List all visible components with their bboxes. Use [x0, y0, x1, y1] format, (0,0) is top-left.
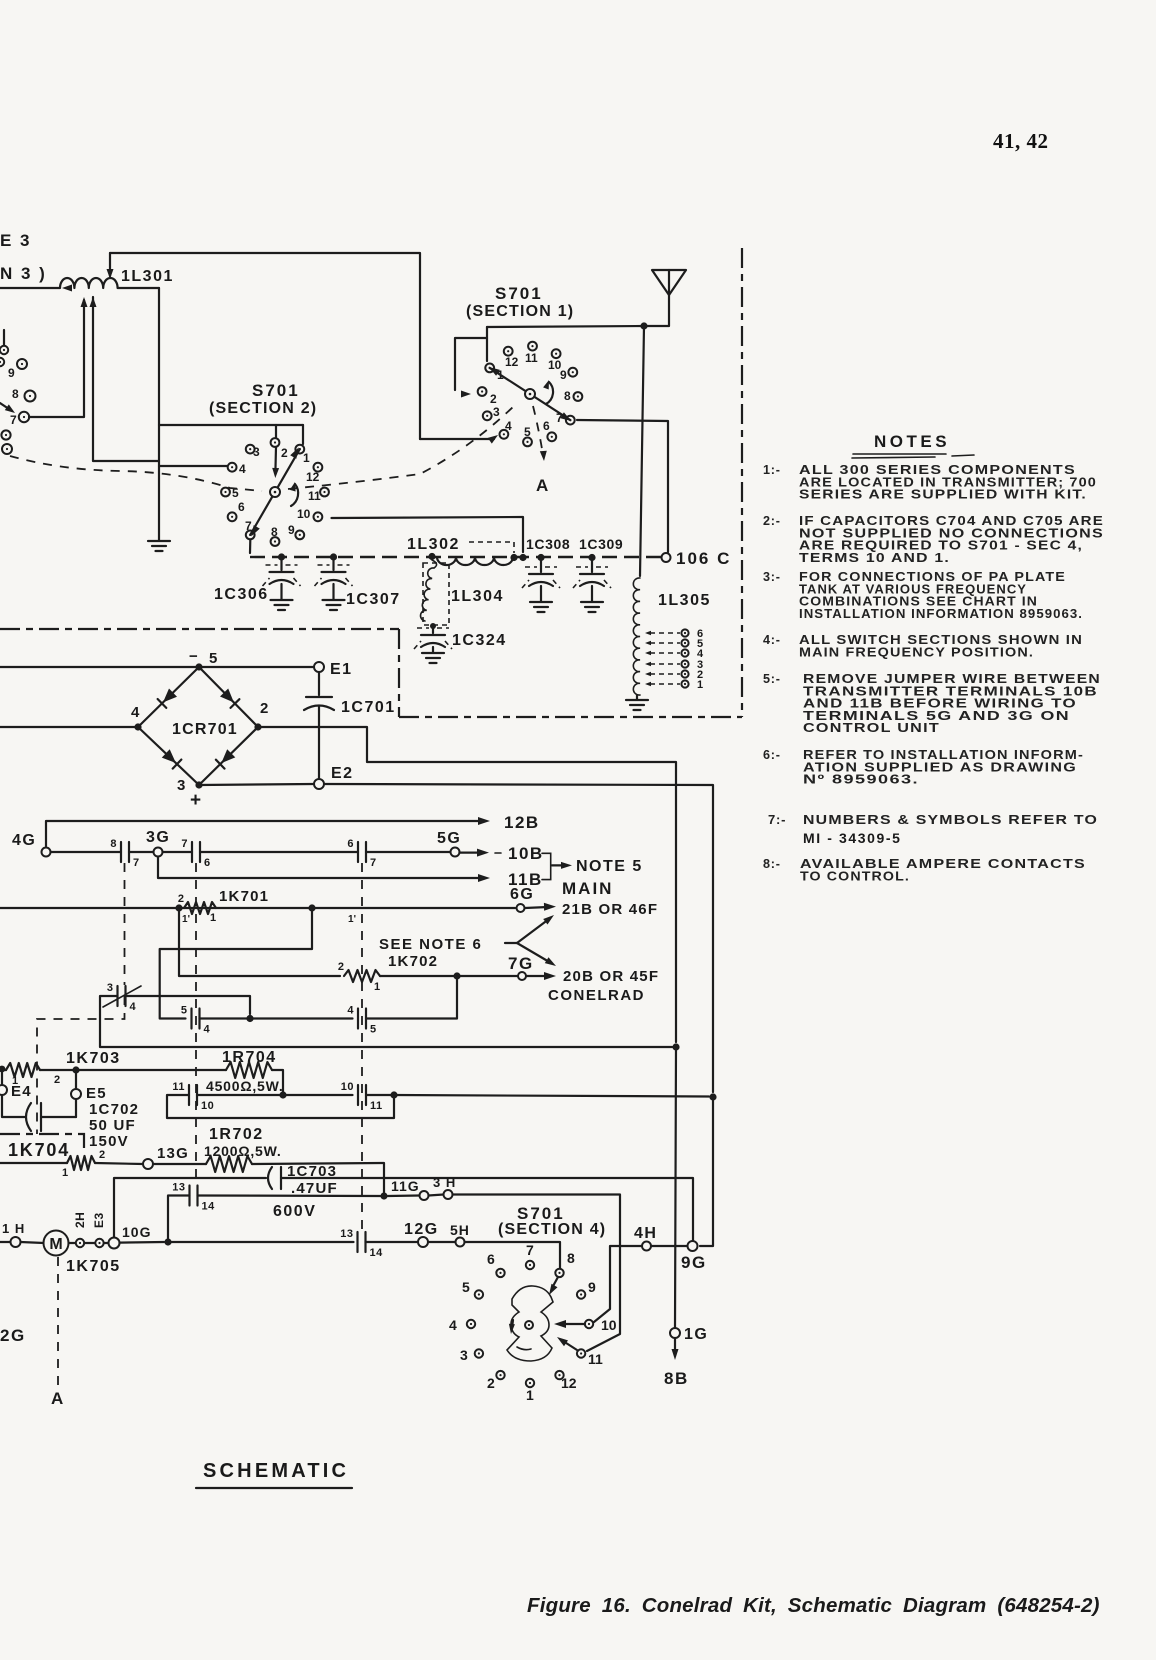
wire contact 11-10 to junction [197, 1094, 283, 1096]
svg-text:11: 11 [172, 1081, 185, 1093]
wire bridge left to page edge [0, 726, 138, 728]
svg-text:2: 2 [54, 1074, 60, 1086]
svg-text:7: 7 [181, 838, 188, 850]
svg-text:2: 2 [99, 1149, 105, 1161]
svg-text:2H: 2H [73, 1212, 87, 1228]
wire junction to contact 13-14 lower [168, 1241, 354, 1243]
svg-text:2: 2 [281, 446, 288, 460]
svg-text:4: 4 [347, 1005, 354, 1017]
svg-text:E4: E4 [11, 1083, 32, 1100]
mech dash from motor M [57, 1257, 59, 1385]
svg-text:150V: 150V [89, 1133, 129, 1150]
svg-text:3 H: 3 H [433, 1175, 456, 1190]
terminal 7G [518, 972, 526, 980]
mechanical gang dash from S701-3 to S701-2 [10, 456, 262, 491]
wire contact to 3G [129, 851, 153, 853]
relay coil 1K704 [67, 1156, 95, 1170]
wire S701-2 contact 7 to bus [249, 540, 252, 553]
svg-text:MI - 34309-5: MI - 34309-5 [803, 830, 902, 846]
wire contact 13-14 left down to 10G row [168, 1196, 190, 1239]
svg-text:7: 7 [10, 413, 17, 427]
svg-text:9: 9 [8, 366, 15, 380]
junction 10G row [164, 1238, 171, 1245]
svg-text:1K701: 1K701 [219, 888, 269, 905]
svg-text:(SECTION 4): (SECTION 4) [498, 1221, 606, 1238]
svg-text:Nº 8959063.: Nº 8959063. [803, 773, 919, 787]
svg-text:3: 3 [107, 982, 114, 994]
svg-text:10: 10 [548, 358, 562, 372]
junction 1L304-1C324 [430, 623, 436, 629]
svg-text:5: 5 [462, 1279, 470, 1295]
svg-text:1: 1 [303, 451, 310, 465]
motor 1K705 [21, 1242, 45, 1243]
inductor 1L301 [0, 278, 159, 288]
svg-text:6: 6 [238, 500, 245, 514]
wire contact 3-4 right to junction riser [126, 996, 251, 1014]
dash box 1K704 [0, 1134, 84, 1149]
node 5 (minus) [195, 663, 202, 670]
svg-text:3: 3 [177, 777, 185, 794]
wire 1K701-left down to 1K702 [179, 908, 340, 976]
wire 1K702 to 7G [380, 975, 517, 977]
svg-text:.47UF: .47UF [291, 1180, 338, 1197]
mech dash link to 1K704 [37, 996, 125, 1134]
rotation arc S701 section 2 [291, 484, 298, 506]
rotation arrow S701 section 4 [512, 1320, 513, 1328]
svg-text:106 C: 106 C [676, 549, 731, 568]
wire top from 1L301 to S701-1 drop [110, 253, 420, 439]
svg-text:7: 7 [245, 519, 252, 533]
terminal 12G [418, 1237, 428, 1247]
svg-text:1C306: 1C306 [214, 586, 269, 603]
node 2 [254, 723, 261, 730]
capacitor 1C309 [591, 557, 593, 572]
relay contact 10-11 [357, 1085, 359, 1105]
junction antenna node [640, 322, 647, 329]
switch S701 section 2 contacts [271, 438, 280, 447]
svg-text:13: 13 [172, 1182, 185, 1194]
terminal 2H [69, 1242, 76, 1244]
wire contact 3-4 left down to 1048 line [100, 996, 672, 1047]
svg-text:4H: 4H [634, 1225, 657, 1242]
svg-text:13: 13 [340, 1228, 353, 1240]
svg-text:MAIN: MAIN [562, 879, 613, 898]
inductor 1L304 (variable, dashed box) [432, 560, 437, 568]
svg-text:1G: 1G [684, 1326, 708, 1343]
terminal 5G [451, 848, 460, 857]
svg-text:8:-: 8:- [763, 857, 781, 871]
svg-text:4:-: 4:- [763, 633, 781, 647]
wire 10G to junction [120, 1241, 165, 1244]
svg-text:10: 10 [341, 1081, 354, 1093]
bracket note 5 [542, 853, 551, 879]
svg-text:1: 1 [526, 1387, 534, 1403]
svg-text:6: 6 [487, 1251, 495, 1267]
svg-text:6:-: 6:- [763, 748, 781, 762]
wire contact 10-11 to junction 2 [366, 1094, 394, 1096]
wire 1R704 down to contact row [272, 1070, 283, 1095]
wire 5H to S701-4 contact 8 [465, 1242, 561, 1268]
wire contact 5-4 to junction [200, 1017, 251, 1019]
svg-text:CONTROL UNIT: CONTROL UNIT [803, 721, 940, 735]
svg-text:2: 2 [260, 700, 268, 717]
wire 12B branch [46, 821, 484, 846]
wire 3H to S701-4 contact 11 [453, 1195, 621, 1352]
junction 1C309 [588, 554, 595, 561]
wire 21B line [0, 907, 515, 909]
svg-text:1K705: 1K705 [66, 1258, 121, 1275]
relay contact 3-4 (with NC slash) [116, 986, 118, 1006]
svg-text:3: 3 [460, 1347, 468, 1363]
wire junction to contact 4-5 [250, 1017, 353, 1019]
wire right vertical to 1G [675, 1047, 676, 1327]
svg-text:3: 3 [253, 445, 260, 459]
wire bridge bottom to E2 [199, 784, 313, 785]
svg-text:NUMBERS & SYMBOLS REFER TO: NUMBERS & SYMBOLS REFER TO [803, 812, 1098, 827]
wire antenna node down to 1L305 [640, 326, 644, 576]
svg-text:7:-: 7:- [768, 812, 786, 827]
relay contact 13-14 upper [188, 1186, 190, 1206]
svg-text:1C307: 1C307 [346, 591, 401, 608]
wire 12G to 5H [428, 1241, 456, 1243]
relay contact 8-7 [120, 842, 122, 862]
terminal 11G [420, 1191, 429, 1200]
svg-text:8B: 8B [664, 1369, 689, 1388]
wire S701-4 contact 10 to 4H [594, 1246, 641, 1322]
mech dash link relay 1K701 contacts x=124.5 [124, 863, 126, 985]
svg-text:8: 8 [564, 389, 571, 403]
svg-text:4: 4 [449, 1317, 457, 1333]
wire 1R702 to 11G junction [252, 1163, 384, 1192]
terminal 1G [670, 1328, 680, 1338]
terminal E1 [314, 662, 324, 672]
junction 20B line [453, 972, 460, 979]
svg-text:1K702: 1K702 [388, 953, 438, 970]
arrow 20B [527, 975, 549, 977]
svg-text:9G: 9G [681, 1253, 707, 1272]
svg-text:1: 1 [697, 679, 703, 691]
wire E2 to right vertical (9G feed) [325, 784, 713, 1092]
svg-text:8: 8 [567, 1250, 575, 1266]
svg-text:E1: E1 [330, 661, 353, 678]
wire 3G to contact 7-6 [163, 851, 193, 853]
svg-text:1: 1 [62, 1167, 68, 1179]
relay contact 11-10 [188, 1085, 190, 1105]
relay coil 1K703 [0, 1069, 6, 1071]
terminal E3 [84, 1242, 95, 1244]
svg-text:1200Ω,5W.: 1200Ω,5W. [204, 1143, 282, 1159]
svg-text:7: 7 [133, 857, 140, 869]
svg-text:−: − [189, 648, 198, 665]
mech dash link x=362 [361, 863, 363, 1232]
svg-text:1L305: 1L305 [658, 592, 711, 609]
svg-text:1C324: 1C324 [452, 632, 507, 649]
pointer from contact 8 into rotor [552, 1277, 558, 1288]
svg-text:10: 10 [201, 1100, 214, 1112]
node 3 (plus) [195, 781, 202, 788]
wire S701-3 contact 7 to 1L301 taps [29, 300, 84, 417]
svg-text:11: 11 [588, 1351, 603, 1367]
svg-text:5: 5 [524, 425, 531, 439]
svg-text:14: 14 [202, 1201, 216, 1213]
svg-text:1R704: 1R704 [222, 1049, 277, 1066]
svg-text:1C702: 1C702 [89, 1101, 139, 1118]
wire junction to 11G [388, 1194, 420, 1197]
svg-text:14: 14 [370, 1247, 384, 1259]
svg-text:E3: E3 [92, 1212, 106, 1228]
relay coil 1K702 [344, 970, 380, 982]
svg-text:4: 4 [130, 1001, 137, 1013]
wire contact 4-5 up to 20B line [366, 976, 457, 1019]
svg-text:1R702: 1R702 [209, 1126, 264, 1143]
svg-text:8: 8 [271, 525, 278, 539]
junction bypass right [390, 1091, 397, 1098]
terminal 6G [517, 904, 525, 912]
svg-text:1CR701: 1CR701 [172, 721, 238, 738]
junction right vertical 1097 [709, 1093, 716, 1100]
svg-text:3:-: 3:- [763, 570, 781, 584]
rotor arm S701 section 2 [250, 449, 300, 535]
terminal 3G [154, 848, 163, 857]
svg-text:10: 10 [601, 1317, 617, 1333]
svg-text:8: 8 [110, 838, 117, 850]
svg-text:1 H: 1 H [2, 1221, 25, 1236]
svg-text:2:-: 2:- [763, 514, 781, 528]
arrow to 8B [674, 1338, 676, 1352]
junction 1L302 right [510, 554, 517, 561]
svg-text:5:-: 5:- [763, 672, 781, 686]
wire to S701-2 contact 4 [159, 465, 228, 467]
wire bridge top to left edge [0, 666, 199, 668]
svg-text:1K703: 1K703 [66, 1050, 121, 1067]
svg-text:12: 12 [505, 355, 519, 369]
svg-text:E 3: E 3 [0, 231, 32, 250]
terminal 13G [143, 1159, 153, 1169]
svg-text:13G: 13G [157, 1145, 189, 1162]
arm of S701 section 3 [0, 403, 12, 411]
junction 11G [380, 1192, 387, 1199]
svg-text:11G: 11G [391, 1178, 420, 1194]
svg-text:1L302: 1L302 [407, 536, 460, 553]
svg-text:MAIN FREQUENCY POSITION.: MAIN FREQUENCY POSITION. [799, 645, 1034, 659]
svg-text:A: A [536, 476, 549, 495]
svg-text:8: 8 [12, 387, 19, 401]
svg-text:4: 4 [505, 419, 512, 433]
svg-text:20B OR 45F: 20B OR 45F [563, 968, 659, 985]
svg-text:12: 12 [561, 1375, 577, 1391]
wire contact 6-7 to 5G [366, 851, 451, 853]
svg-text:NOTES: NOTES [874, 432, 950, 451]
switch S701 section 4 contacts [526, 1261, 534, 1269]
capacitor 1C324 [432, 625, 434, 633]
svg-text:SEE NOTE 6: SEE NOTE 6 [379, 936, 482, 953]
wire to 12G [366, 1241, 419, 1243]
junction right vertical 1048 [672, 1043, 679, 1050]
terminal 1H [11, 1237, 21, 1247]
mechanical dash S701-1 to A [533, 406, 543, 455]
svg-text:1: 1 [374, 981, 380, 993]
rotor cam S701 section 4 [507, 1286, 553, 1361]
relay contact 4-5 [357, 1009, 359, 1029]
svg-text:4: 4 [131, 704, 140, 721]
svg-text:11: 11 [308, 489, 321, 503]
wire 1K704 to 13G [95, 1163, 143, 1164]
relay contact 6-7 [357, 842, 359, 862]
wire S701-2 top bracket [159, 424, 303, 426]
svg-text:6: 6 [204, 857, 211, 869]
wire 10G riser to 1C703 [114, 1178, 266, 1239]
svg-text:6: 6 [543, 419, 550, 433]
wire 1C703 to 9G riser [281, 1178, 693, 1242]
svg-text:3G: 3G [146, 829, 170, 846]
terminal E4 [1, 1072, 3, 1084]
wire 1L301 right down to ground [158, 288, 160, 540]
terminal 5H [456, 1238, 465, 1247]
wire S701-2 contact 10 to bus drop [332, 517, 524, 552]
arrow into 1L301 top [109, 253, 111, 276]
svg-text:2: 2 [178, 893, 184, 905]
terminal 9G [688, 1241, 698, 1251]
wire antenna feed [644, 293, 669, 326]
wire tap 2 of 1L301 [93, 297, 159, 461]
arrow 21B [525, 907, 548, 908]
svg-text:4500Ω,5W.: 4500Ω,5W. [206, 1078, 284, 1094]
junction E5 [72, 1066, 79, 1073]
wire 9G right feed [700, 1097, 713, 1246]
node 4 [134, 723, 141, 730]
svg-text:3: 3 [493, 405, 500, 419]
wire bridge node2 to right vertical (1G feed) [258, 727, 676, 1042]
svg-text:1': 1' [182, 914, 190, 925]
svg-text:4: 4 [239, 462, 246, 476]
svg-text:SERIES ARE SUPPLIED WITH KIT.: SERIES ARE SUPPLIED WITH KIT. [799, 488, 1087, 502]
pointer from contact 11 into rotor [563, 1341, 577, 1350]
wire 4H to 9G [651, 1245, 687, 1247]
junction 1K701 left [175, 904, 182, 911]
terminal E2 [314, 779, 324, 789]
svg-text:S701: S701 [252, 381, 300, 400]
svg-text:+: + [190, 790, 201, 811]
svg-text:A: A [51, 1389, 64, 1408]
ground at S701-2 left [148, 540, 170, 542]
svg-text:600V: 600V [273, 1203, 316, 1220]
svg-text:Figure 16. Conelrad Kit, Schem: Figure 16. Conelrad Kit, Schematic Diagr… [527, 1594, 1100, 1617]
junction 1C307 [330, 553, 337, 560]
resistor 1R702 [206, 1156, 252, 1172]
svg-text:(SECTION 2): (SECTION 2) [209, 400, 317, 417]
svg-text:6G: 6G [510, 886, 534, 903]
wire 13G to 1R702 [153, 1163, 206, 1165]
svg-text:4: 4 [204, 1024, 211, 1036]
terminal E5 [75, 1070, 77, 1088]
capacitor 1C307 [332, 557, 334, 570]
svg-text:1L304: 1L304 [451, 588, 504, 605]
wire contact 7-6 to contact 6-7 [200, 851, 358, 853]
bus dash line [250, 556, 666, 558]
svg-text:10B: 10B [508, 844, 544, 863]
capacitor 1C308 [540, 557, 542, 572]
svg-text:10: 10 [297, 507, 311, 521]
svg-text:7: 7 [526, 1242, 534, 1258]
capacitor 1C703 [268, 1167, 272, 1189]
svg-text:11: 11 [370, 1100, 383, 1112]
svg-text:TERMS 10 AND 1.: TERMS 10 AND 1. [799, 551, 950, 565]
svg-text:9: 9 [288, 523, 295, 537]
shield dashes 1L302 [469, 542, 514, 553]
svg-text:41, 42: 41, 42 [993, 129, 1049, 153]
wire 11B branch [158, 857, 482, 879]
junction 1C308 [537, 554, 544, 561]
svg-text:9: 9 [588, 1279, 596, 1295]
svg-text:E5: E5 [86, 1085, 107, 1102]
inductor 1L305 [633, 578, 640, 695]
capacitor 1C702 [2, 1095, 25, 1117]
terminal 106C [662, 553, 671, 562]
resistor 1R704 [226, 1062, 272, 1078]
svg-text:CONELRAD: CONELRAD [548, 987, 645, 1004]
svg-text:7: 7 [370, 857, 377, 869]
svg-text:M: M [49, 1236, 62, 1253]
svg-text:1:-: 1:- [763, 463, 781, 477]
mech dash link x=196 [195, 863, 197, 1185]
wire junction to contact 10-11 [283, 1094, 353, 1096]
wire 1R704 row to right vertical [394, 1095, 709, 1097]
svg-text:N 3 ): N 3 ) [0, 264, 47, 283]
svg-text:1': 1' [348, 914, 356, 925]
svg-text:2G: 2G [0, 1326, 26, 1345]
terminal 3H [444, 1190, 453, 1199]
inductor 1L302 [437, 557, 513, 565]
arrow on 1L301 left lead [62, 285, 72, 292]
junction 1K701 right [308, 904, 315, 911]
junction 1R704 row [279, 1091, 286, 1098]
svg-text:11: 11 [525, 351, 538, 365]
svg-text:1C308: 1C308 [526, 536, 570, 552]
svg-text:1: 1 [210, 912, 216, 924]
svg-text:5: 5 [209, 650, 217, 667]
svg-text:5: 5 [181, 1005, 188, 1017]
svg-text:21B OR 46F: 21B OR 46F [562, 901, 658, 918]
junction 1C306 [278, 553, 285, 560]
svg-text:1L301: 1L301 [121, 268, 174, 285]
capacitor 1C306 [280, 557, 282, 570]
bridge rectifier 1CR701 [138, 667, 258, 785]
terminal 4H [642, 1242, 651, 1251]
svg-text:1C701: 1C701 [341, 699, 396, 716]
svg-text:12G: 12G [404, 1221, 439, 1238]
wire contact 13-14 right to 11G [198, 1194, 381, 1197]
wire to S701-1 contact 4 [420, 438, 494, 440]
mechanical gang dash S701-2 to S701-1 [288, 406, 514, 489]
antenna [652, 270, 686, 295]
svg-text:5G: 5G [437, 830, 461, 847]
svg-text:6: 6 [347, 838, 354, 850]
relay contact 13-14 lower [356, 1232, 358, 1252]
relay coil 1K701 [184, 902, 216, 914]
junction 1L302 left [428, 553, 435, 560]
switch S701 section 1 contacts [485, 364, 494, 373]
rotation arc S701 section 1 [546, 382, 553, 404]
relay contact 5-4 [190, 1009, 192, 1029]
svg-text:E2: E2 [331, 765, 354, 782]
relay contact 7-6 [191, 842, 193, 862]
svg-text:5H: 5H [450, 1222, 470, 1238]
wire 11G to 3H [429, 1195, 444, 1196]
svg-text:1C309: 1C309 [579, 536, 623, 552]
switch S701 section 3 (partial) contacts [3, 330, 5, 345]
arrow to 10B [460, 851, 481, 853]
svg-text:12B: 12B [504, 813, 540, 832]
